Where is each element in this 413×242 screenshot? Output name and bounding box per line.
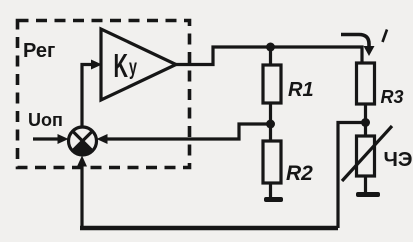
svg-text:R1: R1 <box>288 79 314 101</box>
svg-text:Рег: Рег <box>23 40 55 62</box>
svg-text:ЧЭ: ЧЭ <box>384 148 413 171</box>
svg-text:K: K <box>114 47 129 85</box>
svg-text:R2: R2 <box>286 162 313 185</box>
svg-text:R3: R3 <box>381 87 404 107</box>
svg-text:Uоп: Uоп <box>28 110 63 130</box>
svg-text:у: у <box>129 54 137 79</box>
